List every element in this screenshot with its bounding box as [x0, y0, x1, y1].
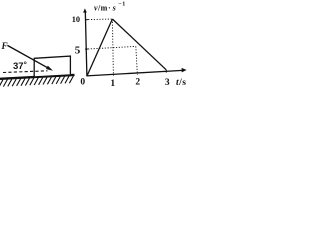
- svg-text:10: 10: [72, 15, 80, 24]
- svg-text:1: 1: [110, 79, 115, 89]
- svg-text:0: 0: [80, 78, 85, 88]
- svg-text:37°: 37°: [13, 61, 27, 72]
- svg-text:t/s: t/s: [176, 78, 186, 88]
- svg-text:5: 5: [75, 44, 81, 56]
- svg-text:v/m·s−1: v/m·s−1: [94, 2, 126, 13]
- svg-text:F: F: [1, 41, 8, 51]
- svg-text:3: 3: [165, 78, 170, 88]
- svg-text:2: 2: [135, 78, 140, 88]
